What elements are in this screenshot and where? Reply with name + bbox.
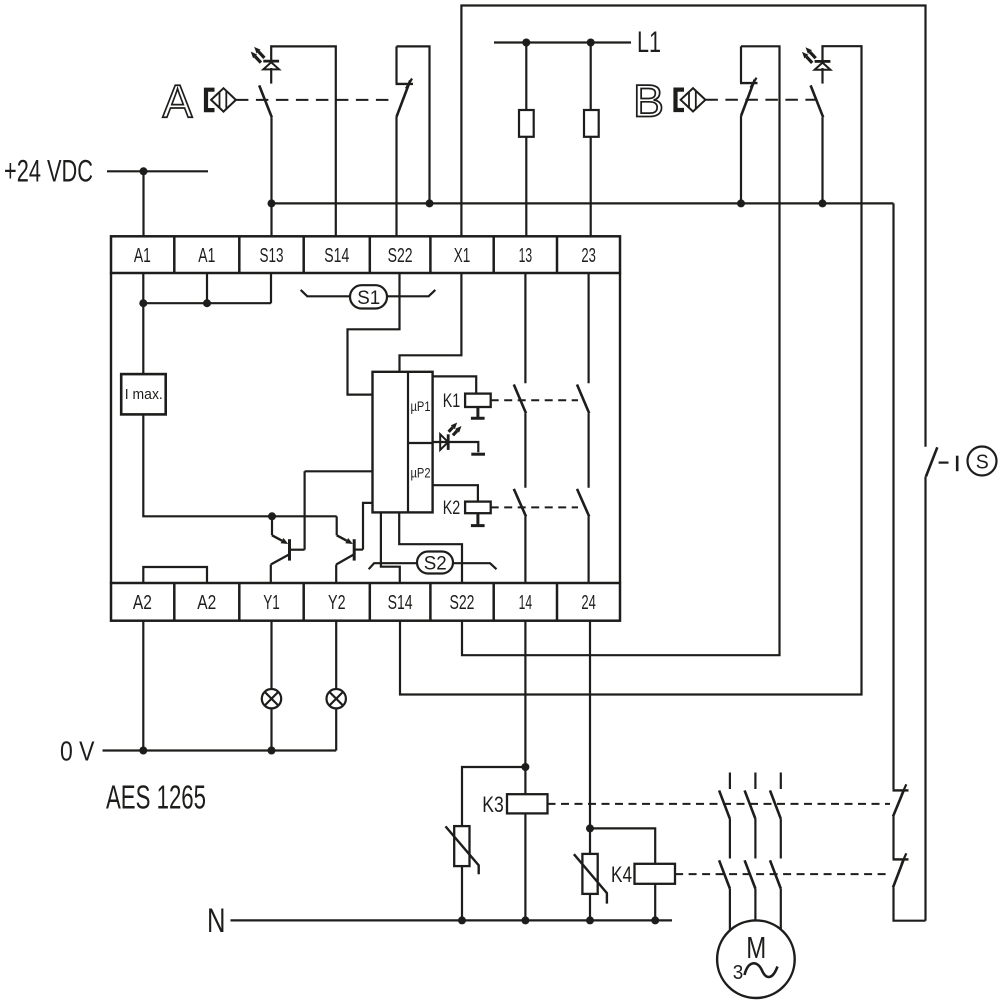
wire S22 top stub: [395, 117, 397, 237]
contact K2 23-24 lower: [577, 489, 589, 583]
wire S22 to uP: [348, 273, 400, 395]
sensor B emitter symbol: [676, 88, 706, 111]
junction R1/N: [458, 916, 466, 924]
wire L3 phase to motor: [780, 889, 782, 930]
svg-text:S: S: [976, 450, 989, 473]
junction A1 bus 1: [139, 299, 147, 307]
relay coil K2: [465, 502, 491, 514]
contact K1 23-24: [577, 273, 589, 488]
wire LED A top to S14: [271, 46, 336, 236]
wire B NO bottom stub: [821, 117, 823, 203]
current limiter Imax: [121, 374, 166, 414]
sensor A emitter symbol: [206, 88, 236, 111]
fuse F2: [584, 110, 599, 137]
svg-text:S2: S2: [424, 553, 447, 575]
junction emitter rail/Q1: [268, 512, 276, 520]
junction K3/N: [521, 916, 529, 924]
svg-text:A1: A1: [198, 244, 215, 267]
wire internal A1 bus: [143, 273, 271, 374]
wire between NC contacts: [892, 817, 894, 859]
wire varistor R2 to N: [589, 894, 591, 921]
wire Y1 drop: [270, 621, 272, 689]
wire rail down to K3 NC: [892, 203, 894, 789]
svg-text:Y1: Y1: [263, 591, 280, 614]
wire fuse 23 drop: [590, 43, 592, 237]
wire bottom S14 return loop: [400, 46, 862, 694]
dashed actuation line B: [705, 99, 816, 101]
wire Y2 drop: [335, 621, 337, 689]
lamp H2 (Y2): [327, 689, 346, 708]
junction L1/13: [522, 39, 530, 47]
svg-text:K3: K3: [482, 792, 504, 817]
wire 14 to K3: [524, 621, 526, 795]
svg-text:24: 24: [581, 591, 596, 614]
contact K2 13-14 lower: [514, 489, 526, 583]
svg-text:M: M: [746, 930, 766, 965]
contact K4 main L1 phase: [719, 819, 730, 889]
varistor R2: [574, 854, 607, 904]
wire uP to K1: [433, 376, 477, 393]
svg-text:µP1: µP1: [411, 399, 431, 414]
svg-text:3: 3: [733, 961, 744, 984]
contact K4 main L3 phase: [770, 819, 781, 889]
svg-text:K1: K1: [443, 390, 461, 412]
svg-text:14: 14: [519, 591, 533, 614]
junction A2/0V: [139, 747, 147, 755]
LED uP status: [440, 423, 461, 450]
relay coil K1: [465, 394, 491, 407]
junction Y1/0V: [268, 747, 276, 755]
wire Q1 base to uP: [305, 471, 373, 549]
switch S (start button, NO): [926, 447, 997, 477]
contact K3 main L3 phase: [770, 773, 781, 819]
svg-text:13: 13: [519, 244, 533, 267]
LED A indicator: [251, 47, 279, 70]
contactor coil K4: [635, 864, 676, 884]
contact K3 main L1 phase: [719, 773, 730, 819]
wire Q2 base to uP: [363, 503, 373, 550]
svg-text:S14: S14: [324, 244, 349, 267]
terminal row bottom: [111, 583, 620, 621]
svg-text:23: 23: [581, 244, 596, 267]
svg-text:Y2: Y2: [328, 591, 346, 614]
jumper S2 link: [369, 552, 497, 575]
wire K4 to N: [654, 884, 656, 920]
wire S down right edge: [924, 477, 926, 921]
wire +24VDC rail: [107, 170, 208, 172]
svg-text:S14: S14: [388, 591, 413, 614]
transistor Q2 (Y2 driver): [336, 516, 363, 583]
microcontroller block U1: [373, 372, 433, 513]
svg-text:S22: S22: [388, 244, 413, 267]
wire N rail: [231, 919, 673, 921]
svg-text:X1: X1: [454, 244, 471, 267]
junction A NC return/rail: [426, 199, 434, 207]
contact B NO: [811, 85, 824, 117]
svg-text:0 V: 0 V: [60, 736, 95, 767]
contact A NO (S13-S14 channel): [259, 85, 272, 117]
svg-text:A2: A2: [133, 591, 152, 614]
relay body sides: [111, 273, 620, 583]
junction 24/K4 branch: [586, 824, 594, 832]
wire fuse 13 drop: [525, 43, 527, 237]
svg-text:A: A: [163, 76, 193, 128]
wire A1 top stub: [142, 171, 144, 236]
svg-text:AES 1265: AES 1265: [106, 779, 206, 816]
wire outer loop top border X1 to S: [461, 6, 925, 447]
dashed actuation line A: [236, 99, 394, 101]
wire B NC bottom stub: [740, 116, 742, 203]
dashed link K1 contacts: [491, 399, 578, 401]
dashed link K4 contacts: [675, 873, 890, 875]
junction R2/N: [586, 916, 594, 924]
contact K4 NC auxiliary: [893, 853, 909, 887]
contact K1 13-14: [514, 273, 526, 488]
wire Y1 lamp to 0V: [270, 708, 272, 750]
wire 0V rail: [103, 749, 337, 751]
wire NC chain bottom link: [894, 888, 926, 921]
svg-text:L1: L1: [637, 26, 661, 59]
junction 14/varistor branch: [521, 763, 529, 771]
wire L1 phase to motor: [729, 889, 731, 931]
ground K1: [471, 407, 485, 418]
wire L2 phase to motor: [754, 889, 756, 921]
wire A2-A2 bridge: [143, 567, 207, 583]
dashed link K3 contacts: [548, 803, 891, 805]
terminal row top: [111, 236, 620, 273]
svg-text:S1: S1: [357, 287, 380, 309]
wire Imax to emitter rail: [143, 414, 336, 516]
ground uP LED: [471, 453, 485, 456]
junction K4/N: [651, 916, 659, 924]
junction +24VDC/A1: [140, 167, 148, 175]
contact A NC (S22 channel): [396, 46, 414, 116]
varistor R1: [446, 826, 479, 874]
wire rail A/B interconnect: [272, 202, 894, 204]
junction S13/rail: [268, 199, 276, 207]
LED B indicator: [802, 47, 830, 69]
svg-text:A1: A1: [134, 244, 151, 267]
wire A NC top to return: [397, 46, 430, 203]
lamp H1 (Y1): [262, 689, 281, 708]
svg-text:A2: A2: [197, 591, 216, 614]
wire K3 to N: [524, 813, 526, 920]
svg-text:S22: S22: [450, 591, 475, 614]
junction A1 bus 2: [203, 299, 211, 307]
junction L1/23: [587, 39, 595, 47]
wire uP to K2: [433, 485, 478, 501]
contact B NC (bottom S22 channel): [740, 46, 758, 116]
svg-text:+24 VDC: +24 VDC: [4, 152, 93, 188]
wire varistor R1 to N: [461, 866, 463, 920]
svg-text:I max.: I max.: [125, 386, 163, 403]
junction B NC/rail: [737, 199, 745, 207]
wire Y2 lamp to 0V: [335, 708, 337, 750]
svg-text:K4: K4: [611, 862, 632, 887]
wire X1 to uP: [400, 273, 462, 372]
wire bottom S22 return loop: [462, 46, 780, 655]
contact K4 main L2 phase: [745, 819, 756, 889]
motor M 3~: [717, 920, 795, 998]
transistor Q1 (Y1 driver): [271, 516, 305, 583]
wire L1 rail: [494, 41, 631, 43]
wire A2 to 0V: [142, 621, 144, 751]
wire S13 stub: [270, 117, 272, 236]
wire K4 branch: [590, 828, 655, 863]
ground K2: [471, 513, 485, 525]
fuse F1: [519, 110, 534, 137]
wire LED B bottom stub: [821, 68, 823, 84]
wire 24 to varistor R2: [589, 621, 591, 854]
dashed link K2 contacts: [491, 506, 578, 508]
wire varistor R1 branch: [462, 767, 525, 826]
svg-text:B: B: [633, 76, 664, 127]
jumper S1 link: [301, 285, 436, 309]
svg-text:S13: S13: [260, 244, 284, 267]
svg-text:K2: K2: [443, 497, 461, 519]
wire uP to bottom S14: [381, 512, 400, 583]
wire uP LED feed: [433, 442, 479, 452]
svg-text:µP2: µP2: [411, 466, 431, 481]
contact K3 NC auxiliary: [893, 784, 909, 816]
wire uP to bottom S22: [399, 512, 462, 583]
svg-text:N: N: [207, 902, 226, 940]
wire LED A bottom stub: [270, 68, 272, 84]
junction B NO/rail: [819, 199, 827, 207]
contact K3 main L2 phase: [745, 773, 756, 819]
contactor coil K3: [507, 794, 548, 813]
